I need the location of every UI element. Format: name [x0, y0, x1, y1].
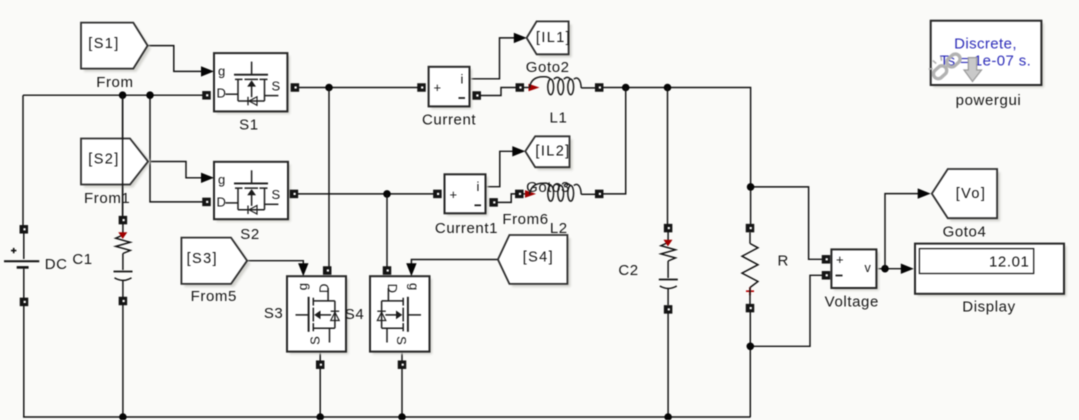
wire: C2 top lead	[667, 88, 669, 226]
svg-text:[IL2]: [IL2]	[535, 144, 570, 160]
node: ground rail junction at C2	[664, 413, 672, 420]
svg-text:g: g	[295, 283, 310, 290]
wire: vertical to S4 drain	[386, 194, 388, 267]
svg-text:DC: DC	[45, 256, 68, 273]
From tag [S4] (mirrored)	[501, 238, 571, 287]
svg-text:i: i	[461, 72, 464, 87]
Goto tag [Vo]	[935, 172, 1000, 221]
wire: Voltage output	[876, 268, 901, 270]
node: D rail junction at S2 branch	[146, 91, 154, 99]
RC branch C1	[119, 216, 128, 225]
node: L2 tie-in	[622, 84, 630, 92]
svg-text:D: D	[385, 284, 400, 293]
From tag [S3]	[184, 241, 250, 287]
svg-text:S: S	[308, 336, 323, 345]
wire: vertical to S3 drain	[328, 88, 330, 268]
svg-text:[S2]: [S2]	[88, 152, 119, 168]
svg-text:From5: From5	[191, 288, 237, 305]
svg-text:S: S	[272, 187, 281, 202]
svg-text:S4: S4	[345, 306, 365, 323]
wire: From6 [S4] to S4 gate	[411, 260, 498, 267]
wire: From[S2] to S2 gate	[148, 162, 201, 178]
inductor L2	[515, 190, 524, 199]
svg-text:Display: Display	[962, 299, 1015, 316]
svg-text:C2: C2	[618, 262, 638, 279]
svg-text:Goto3: Goto3	[526, 179, 570, 196]
powergui broken-link icon	[929, 52, 962, 80]
wire: to Goto4	[885, 194, 919, 269]
node: junction to S4 drain	[383, 190, 391, 198]
RC branch C2	[664, 224, 673, 233]
svg-text:[IL1]: [IL1]	[536, 30, 571, 46]
wire: S2 D branch	[150, 95, 206, 202]
wire: Current1 - to L2	[494, 194, 519, 203]
svg-text:R: R	[777, 253, 788, 270]
wire: R bottom lead, Voltage - feed	[749, 308, 751, 417]
svg-text:[S3]: [S3]	[187, 251, 218, 267]
svg-text:i: i	[477, 179, 480, 194]
wire: S1 source to Current +	[295, 87, 421, 89]
node: junction to S3 drain	[325, 84, 333, 92]
svg-text:S: S	[394, 336, 409, 345]
svg-text:From1: From1	[84, 190, 130, 207]
powergui down-arrow icon	[964, 58, 982, 82]
From tag [S1]	[84, 26, 151, 72]
svg-text:g: g	[218, 64, 225, 79]
svg-text:Voltage: Voltage	[825, 294, 879, 311]
svg-text:From6: From6	[502, 211, 548, 228]
current measurement Current1	[447, 177, 488, 216]
wire: From[S1] to S1 gate	[148, 46, 201, 72]
wire: S2 source to Current1 +	[294, 193, 437, 195]
mosfet S1	[217, 56, 290, 114]
svg-text:S2: S2	[240, 226, 260, 243]
From tag [S2]	[84, 142, 151, 188]
svg-text:[S1]: [S1]	[88, 36, 119, 52]
wire: top D rail from battery to S1 D	[23, 94, 206, 96]
display Display	[918, 246, 1067, 296]
svg-text:[Vo]: [Vo]	[956, 186, 987, 202]
svg-text:D: D	[217, 86, 226, 101]
svg-text:L1: L1	[550, 109, 568, 126]
svg-text:D: D	[217, 194, 226, 209]
wire: Current i output to Goto2	[470, 38, 515, 79]
wire: battery top lead	[22, 95, 24, 226]
wire: S4 source to ground rail	[401, 352, 403, 417]
wire: C1 top lead	[122, 95, 124, 222]
wire: Current - to L1	[477, 88, 520, 96]
wire: From5 [S3] to S3 gate	[247, 261, 303, 266]
svg-text:D: D	[317, 284, 332, 293]
current measurement Current	[431, 69, 472, 109]
svg-text:S: S	[272, 78, 281, 93]
wire: R top feed and Voltage + feed	[750, 187, 752, 228]
wire: ground rail	[23, 416, 751, 418]
svg-text:[S4]: [S4]	[523, 250, 554, 266]
wire: C1 lead drawn over tag (as in source)	[122, 95, 124, 222]
node: C2 tie-in	[664, 84, 672, 92]
wire: Current1 i output to Goto3	[486, 151, 514, 186]
svg-text:Current1: Current1	[435, 220, 498, 237]
svg-text:g: g	[218, 172, 225, 187]
mosfet S3 (rotated)	[290, 279, 349, 354]
svg-text:+: +	[836, 252, 844, 267]
svg-text:Goto2: Goto2	[526, 59, 570, 76]
svg-text:S1: S1	[239, 117, 259, 134]
mosfet S2	[217, 164, 291, 221]
svg-text:+: +	[434, 80, 442, 95]
svg-text:S3: S3	[264, 305, 284, 322]
wire: L1 to output rail	[599, 88, 751, 187]
inductor L1	[516, 83, 525, 92]
svg-text:L2: L2	[550, 220, 568, 237]
svg-text:From: From	[96, 74, 133, 91]
svg-text:Current: Current	[422, 111, 476, 128]
svg-text:Goto4: Goto4	[943, 224, 987, 241]
resistor R	[746, 224, 755, 233]
DC voltage source battery	[20, 225, 29, 234]
svg-text:Discrete,: Discrete,	[954, 36, 1017, 53]
wire: C1 bottom lead	[122, 301, 124, 417]
svg-text:C1: C1	[72, 251, 92, 268]
svg-text:12.01: 12.01	[989, 254, 1030, 271]
svg-text:v: v	[865, 261, 872, 275]
voltage measurement Voltage	[834, 252, 879, 291]
node: ground rail junction at C1	[119, 413, 127, 420]
svg-text:g: g	[407, 283, 422, 290]
node: D rail junction at C1	[119, 91, 127, 99]
Goto tag [IL1]	[530, 24, 572, 57]
node: ground rail junction at S4	[398, 413, 406, 420]
powergui block	[933, 23, 1044, 87]
wire: C2 bottom lead	[667, 309, 669, 417]
wire: battery bottom lead to ground rail	[23, 269, 25, 417]
mosfet S4 (rotated, mirrored)	[373, 279, 433, 354]
wire: L2 output up to rail	[599, 88, 626, 194]
svg-text:powergui: powergui	[956, 92, 1022, 109]
wire: S3 source to ground rail	[319, 352, 321, 417]
svg-text:+: +	[450, 187, 458, 202]
Goto tag [IL2]	[528, 139, 572, 170]
node: ground rail junction at S3	[316, 413, 324, 420]
